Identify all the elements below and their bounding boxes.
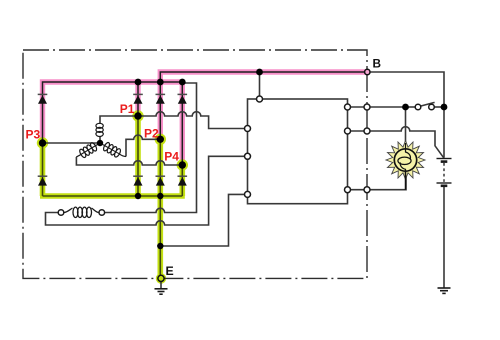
svg-text:P3: P3 bbox=[26, 128, 41, 142]
svg-text:B: B bbox=[373, 57, 382, 71]
svg-text:P4: P4 bbox=[164, 150, 179, 164]
svg-text:P1: P1 bbox=[120, 102, 135, 116]
svg-text:P2: P2 bbox=[144, 127, 159, 141]
svg-text:E: E bbox=[166, 264, 174, 278]
